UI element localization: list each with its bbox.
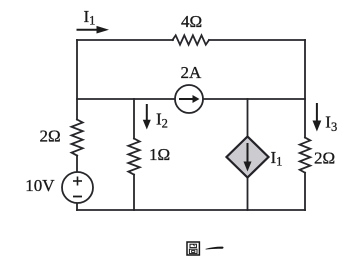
svg-text:I2: I2 — [156, 110, 168, 131]
svg-text:I1: I1 — [271, 148, 283, 168]
caption dash glyph 一 — [206, 247, 224, 250]
svg-text:2Ω: 2Ω — [40, 127, 61, 146]
svg-text:4Ω: 4Ω — [181, 12, 202, 31]
svg-text:10V: 10V — [25, 176, 55, 195]
wire top-right segment — [209, 39, 305, 41]
svg-text:2A: 2A — [181, 63, 203, 82]
resistor R 2ohm left zigzag — [72, 120, 83, 156]
wire left below source to bottom — [76, 203, 78, 210]
caption figure-one glyph 圖 — [187, 242, 199, 255]
current arrow I2 — [143, 104, 151, 130]
wire branch I2 upper — [133, 99, 135, 139]
wire left below resistor — [76, 156, 78, 172]
resistor R 2ohm right zigzag — [300, 138, 311, 173]
voltage source 10V circle — [62, 172, 93, 203]
dependent current source I1 diamond — [227, 137, 269, 178]
wire top-left segment — [77, 39, 173, 41]
current arrow I3 — [313, 103, 322, 132]
resistor R 1ohm zigzag — [128, 139, 139, 175]
resistor R 4ohm zigzag — [173, 35, 210, 44]
wire left vertical upper — [76, 40, 78, 120]
wire branch diamond upper — [247, 99, 249, 137]
svg-text:I3: I3 — [325, 113, 337, 135]
current arrow I1 top — [77, 26, 110, 34]
svg-text:1Ω: 1Ω — [149, 145, 170, 164]
svg-text:2Ω: 2Ω — [314, 149, 335, 168]
wire bottom — [77, 209, 305, 211]
current source 2A circle — [175, 85, 203, 113]
wire middle horizontal left of 2A — [77, 98, 175, 100]
svg-text:I1: I1 — [84, 7, 96, 28]
wire branch I2 lower — [133, 175, 135, 210]
wire middle horizontal right of 2A — [203, 98, 305, 100]
wire right vertical upper — [304, 40, 306, 138]
wire branch diamond lower — [247, 177, 249, 210]
wire right vertical lower — [304, 173, 306, 210]
